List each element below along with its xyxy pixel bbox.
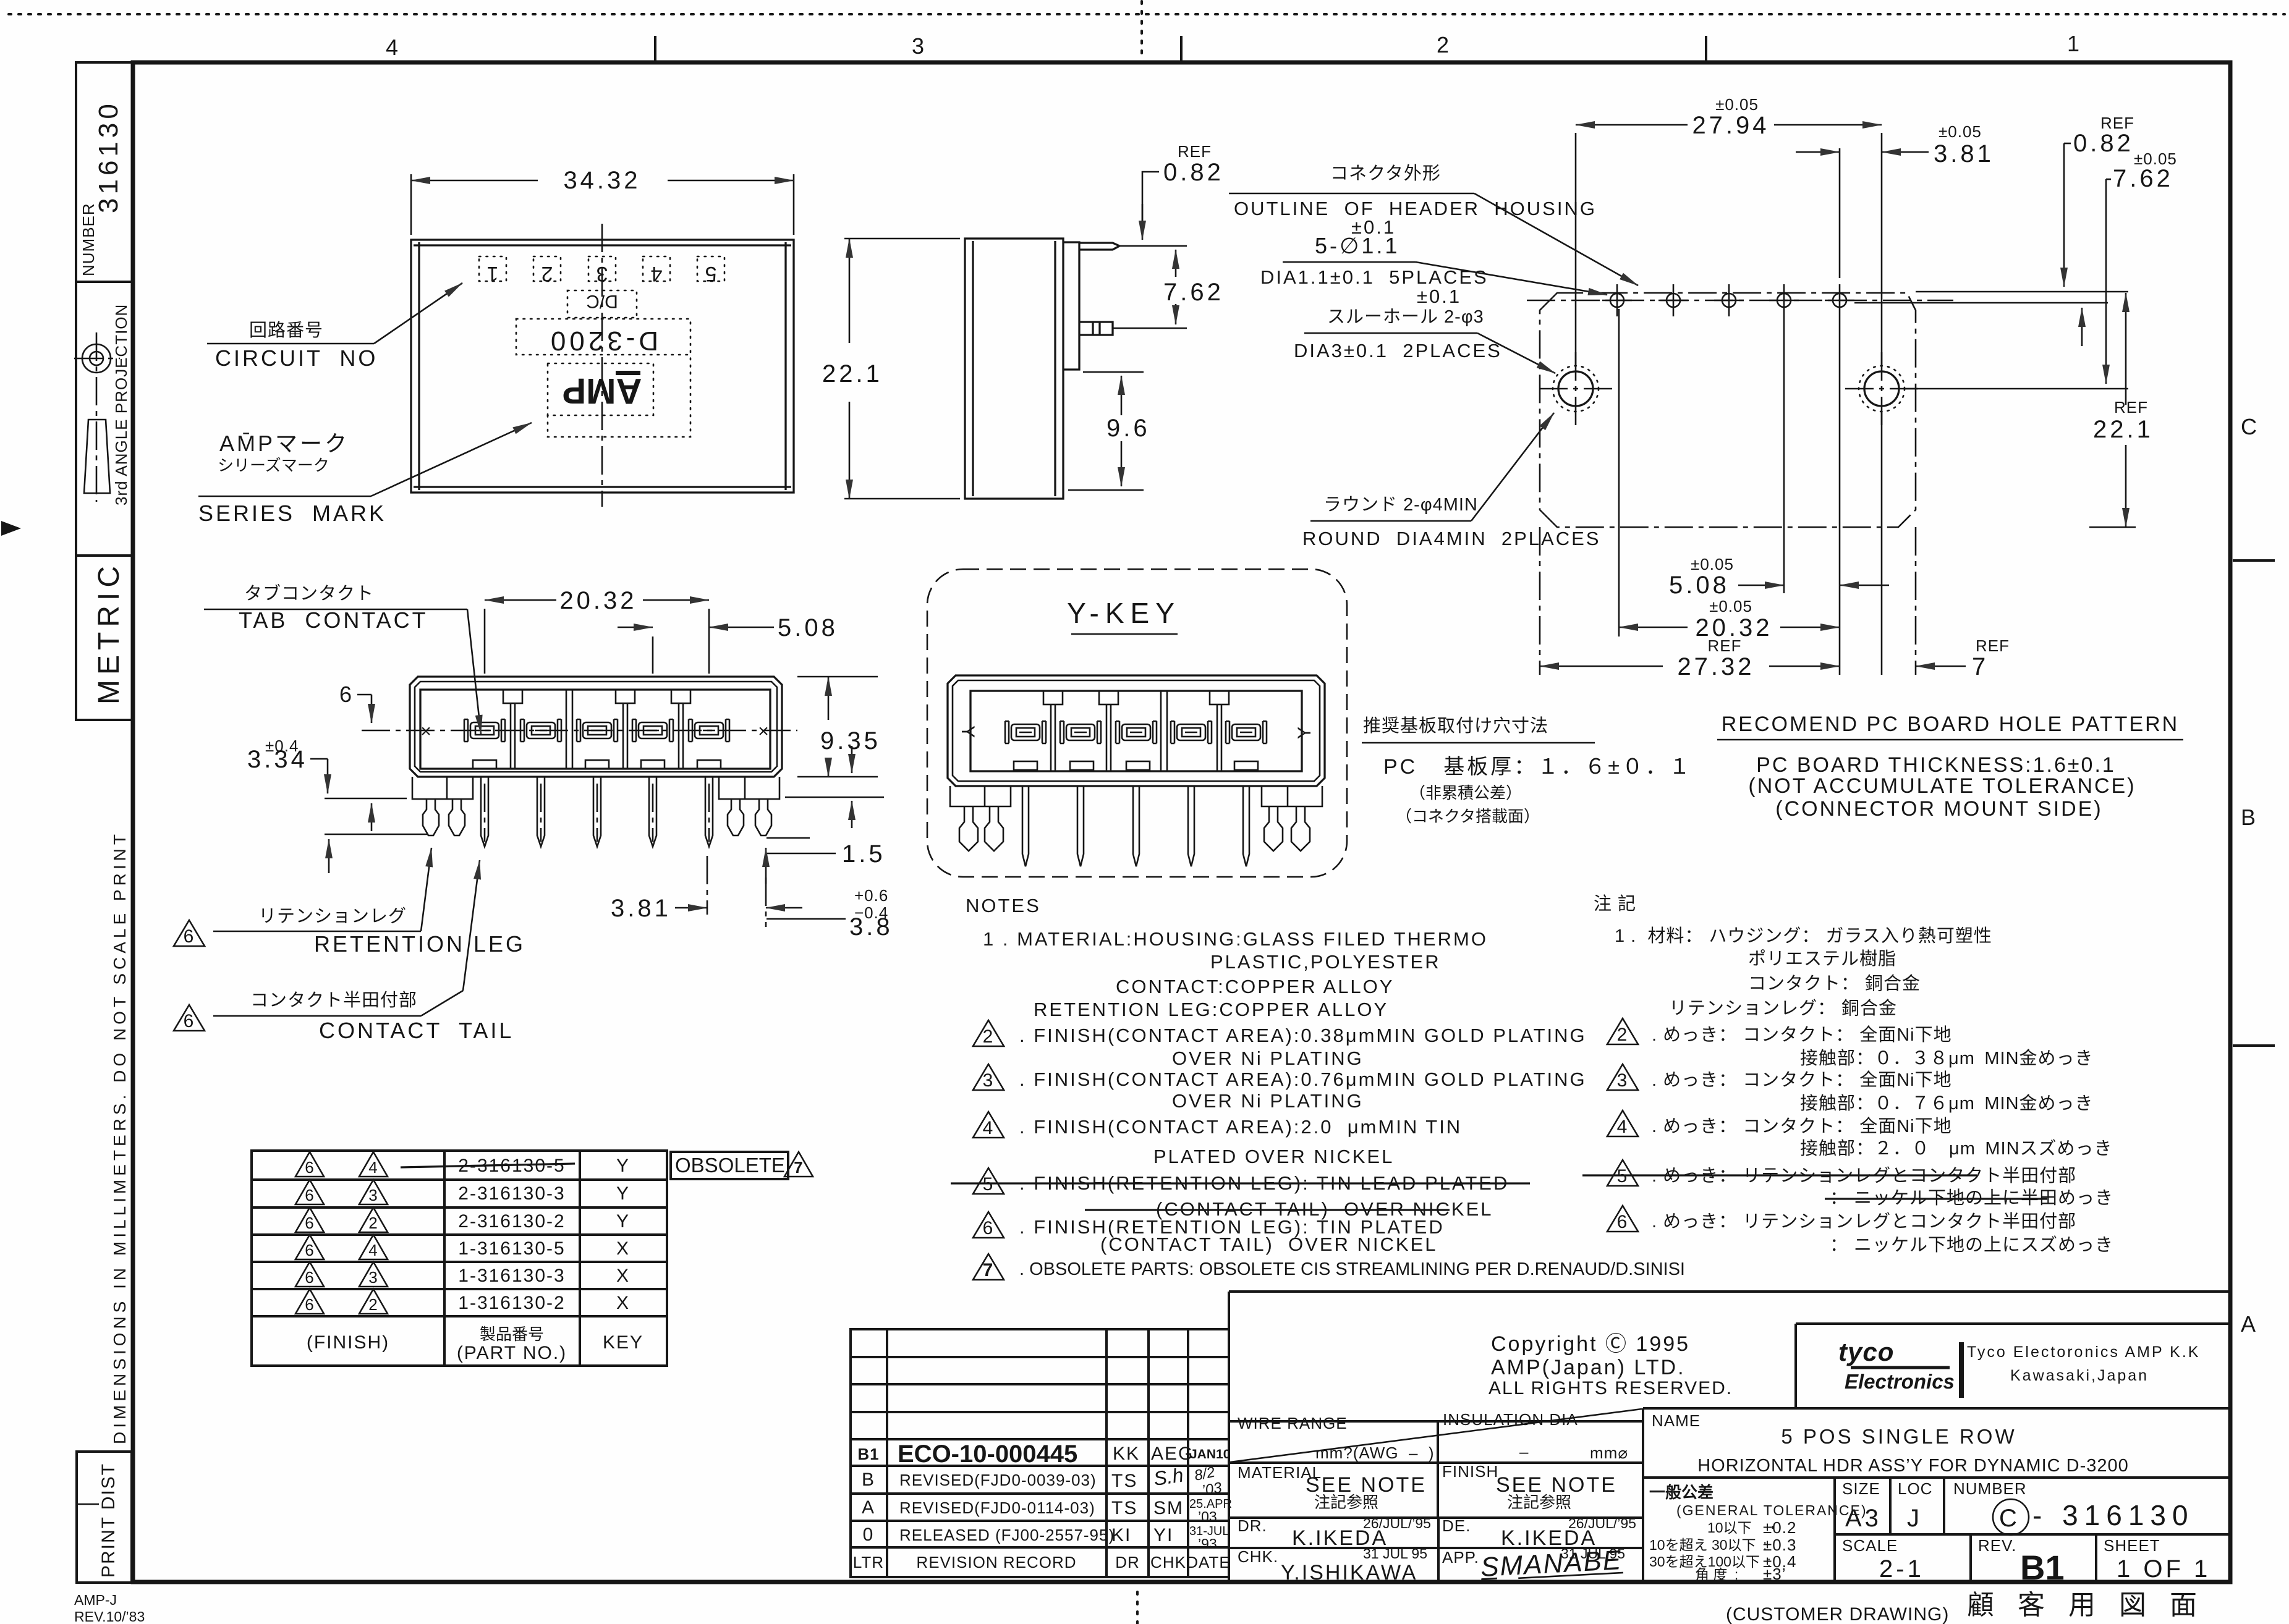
NOTES (japanese) [1582, 894, 2113, 1255]
dim 5.08 view4 [652, 636, 654, 674]
jnote 3 triangle [1607, 1064, 1638, 1091]
note 6 triangle [973, 1212, 1004, 1238]
svg-text:OUTLINE OF HEADER HOUSING: OUTLINE OF HEADER HOUSING [1234, 198, 1597, 219]
svg-text:5 POS SINGLE ROW: 5 POS SINGLE ROW [1781, 1425, 2016, 1448]
svg-text:Y: Y [616, 1183, 630, 1204]
svg-text:CHK.: CHK. [1238, 1547, 1278, 1566]
svg-text:3rd ANGLE PROJECTION: 3rd ANGLE PROJECTION [112, 304, 130, 505]
ykey pin 2 [1077, 787, 1084, 866]
svg-text:接触部：０．７６μm MIN金めっき: 接触部：０．７６μm MIN金めっき [1800, 1093, 2094, 1114]
svg-text:2: 2 [1437, 32, 1451, 57]
svg-text:J: J [1907, 1505, 1922, 1532]
svg-text:±0.05: ±0.05 [1939, 122, 1982, 141]
svg-text:AMP-J: AMP-J [74, 1592, 117, 1608]
svg-text:6: 6 [305, 1241, 314, 1259]
svg-text:LOC: LOC [1898, 1479, 1932, 1498]
right flange [719, 777, 779, 799]
small hole 2 [1658, 284, 1688, 316]
svg-text:. めっき： リテンションレグとコンタクト半田付部: . めっき： リテンションレグとコンタクト半田付部 [1652, 1211, 2076, 1232]
dim 9.6 side [1083, 371, 1144, 373]
svg-text:+0.6: +0.6 [854, 886, 888, 905]
lower tab pin [1079, 322, 1113, 335]
svg-text:RETENTION LEG:COPPER ALLOY: RETENTION LEG:COPPER ALLOY [1034, 999, 1388, 1020]
svg-text:Kawasaki,Japan: Kawasaki,Japan [2010, 1367, 2149, 1384]
svg-text:スルーホール 2-φ3: スルーホール 2-φ3 [1327, 307, 1484, 327]
VIEW3: PC board hole pattern [1229, 95, 2183, 821]
svg-text:リテンションレグ： 銅合金: リテンションレグ： 銅合金 [1669, 998, 1897, 1018]
retention leg L1 [423, 799, 439, 835]
svg-text:AMP: AMP [563, 371, 642, 411]
svg-text:KK: KK [1113, 1444, 1140, 1464]
svg-text:注記参照: 注記参照 [1507, 1493, 1571, 1512]
svg-text:CIRCUIT NO: CIRCUIT NO [215, 345, 378, 371]
bottom ext verticals [1618, 309, 1620, 636]
pin 1 [481, 777, 488, 847]
svg-text:27.32: 27.32 [1677, 653, 1754, 680]
3rd angle projection symbol circle [74, 332, 120, 502]
svg-text:0: 0 [863, 1525, 875, 1545]
svg-text:mm⌀: mm⌀ [1590, 1444, 1628, 1462]
pin 5 [705, 777, 713, 847]
dim 7.62 side [1119, 245, 1187, 247]
pin 3 [593, 777, 601, 847]
dim 9.35 [797, 676, 878, 678]
small hole 1 [1602, 284, 1632, 316]
svg-text:A: A [862, 1497, 875, 1518]
svg-text:’93: ’93 [1198, 1536, 1217, 1552]
center fold dotted marks bottom [1136, 1592, 1139, 1624]
bottom slot under c3 [585, 760, 609, 769]
revision table grid [851, 1329, 1229, 1577]
housing outline dashed [1540, 293, 1916, 527]
svg-text:顧客用図面: 顧客用図面 [1967, 1590, 2220, 1620]
svg-text:接触部：０．３８μm MIN金めっき: 接触部：０．３８μm MIN金めっき [1800, 1048, 2094, 1068]
ykey divider 3 wall [1161, 691, 1167, 771]
svg-text:注 記: 注 記 [1594, 894, 1636, 914]
svg-text:JAN10: JAN10 [1190, 1447, 1230, 1461]
svg-text:1-316130-5: 1-316130-5 [458, 1238, 565, 1259]
svg-text:APP.: APP. [1442, 1548, 1479, 1567]
svg-text:OVER Ni PLATING: OVER Ni PLATING [1172, 1047, 1364, 1069]
svg-text:1: 1 [2067, 31, 2082, 56]
svg-text:： ニッケル下地の上にスズめっき: ： ニッケル下地の上にスズめっき [1830, 1235, 2113, 1255]
svg-text:1 . 材料： ハウジング： ガラス入り熱可塑性: 1 . 材料： ハウジング： ガラス入り熱可塑性 [1615, 926, 1992, 946]
svg-text:NAME: NAME [1652, 1411, 1701, 1430]
contact 1 [464, 719, 505, 742]
svg-text:Y: Y [616, 1156, 630, 1176]
svg-text:2: 2 [1617, 1025, 1629, 1045]
svg-text:9.35: 9.35 [820, 727, 881, 755]
svg-text:REV.10/’83: REV.10/’83 [74, 1609, 145, 1624]
svg-text:RELEASED (FJ00-2557-95): RELEASED (FJ00-2557-95) [899, 1526, 1115, 1544]
big hole left [1539, 352, 1612, 425]
ykey contact 1 [1005, 721, 1046, 743]
svg-text:–: – [1519, 1442, 1529, 1461]
ykey contact 3 [1116, 721, 1157, 743]
svg-text:. めっき： コンタクト： 全面Ni下地: . めっき： コンタクト： 全面Ni下地 [1652, 1116, 1952, 1136]
svg-text:3.8: 3.8 [849, 913, 893, 941]
svg-text:コンタクト： 銅合金: コンタクト： 銅合金 [1748, 973, 1921, 994]
title block outline [1229, 1292, 2230, 1582]
VIEW2: side view [822, 142, 1224, 499]
side body [965, 239, 1119, 499]
ykey pin 1 [1022, 787, 1029, 866]
cavity [420, 690, 770, 769]
note 7 triangle [973, 1254, 1004, 1280]
svg-text:0.82: 0.82 [1163, 159, 1224, 186]
svg-text:X: X [616, 1293, 630, 1313]
svg-text:PLATED OVER NICKEL: PLATED OVER NICKEL [1153, 1146, 1394, 1167]
svg-text:DIMENSIONS IN MILLIMETERS. DO: DIMENSIONS IN MILLIMETERS. DO NOT SCALE … [110, 831, 129, 1444]
svg-text:D/C: D/C [586, 291, 618, 311]
svg-text:7: 7 [1972, 653, 1989, 680]
svg-text:5-∅1.1: 5-∅1.1 [1315, 233, 1399, 258]
finish triangles row1 6,4 [295, 1152, 324, 1177]
PARTS TABLE [252, 1151, 813, 1366]
svg-text:TAB CONTACT: TAB CONTACT [239, 607, 428, 633]
zone tick top 2|1 [1705, 36, 1707, 62]
svg-text:DIA3±0.1 2PLACES: DIA3±0.1 2PLACES [1294, 340, 1502, 362]
big hole right [1845, 352, 1918, 425]
dim 22.1 left [844, 238, 960, 240]
ykey bottom slot c3 [1126, 761, 1150, 770]
finish triangles row3 6,2 [295, 1207, 324, 1232]
svg-text:1 . MATERIAL:HOUSING:GLASS FIL: 1 . MATERIAL:HOUSING:GLASS FILED THERMO [983, 928, 1488, 950]
svg-text:10を超え 30以下 :: 10を超え 30以下 : [1649, 1537, 1767, 1553]
REVISION TABLE [851, 1329, 1232, 1577]
svg-text:3.34: 3.34 [247, 746, 308, 773]
ext lines right side [1916, 291, 2128, 293]
svg-text:3: 3 [983, 1070, 995, 1091]
contact 4 [632, 719, 673, 742]
svg-text:6: 6 [339, 682, 354, 707]
svg-text:TS: TS [1111, 1498, 1137, 1518]
dim 3.81 [675, 907, 707, 909]
svg-text:CHK: CHK [1150, 1553, 1186, 1571]
small hole 4 [1769, 284, 1799, 316]
svg-text:6: 6 [1617, 1212, 1629, 1232]
ykey bottom slot c1 [1014, 761, 1037, 770]
tyco divider bar [1959, 1342, 1964, 1398]
svg-text:(PART NO.): (PART NO.) [457, 1343, 567, 1363]
svg-text:OVER Ni PLATING: OVER Ni PLATING [1172, 1090, 1364, 1112]
svg-text:±3’: ±3’ [1763, 1565, 1786, 1583]
tyco logo [1838, 1337, 1955, 1393]
svg-text:DE.: DE. [1442, 1516, 1471, 1535]
svg-text:AMP(Japan) LTD.: AMP(Japan) LTD. [1491, 1356, 1686, 1379]
center dash line [601, 224, 603, 507]
note 3 triangle [973, 1064, 1004, 1091]
svg-text:2: 2 [368, 1295, 378, 1314]
svg-text:DR.: DR. [1238, 1516, 1267, 1535]
svg-text:tyco: tyco [1838, 1337, 1894, 1366]
note 4 triangle [973, 1112, 1004, 1138]
contact 2 [520, 719, 561, 742]
dim 34.32 [410, 174, 412, 235]
OBSOLETE flag [671, 1152, 788, 1179]
ykey divider 4 slot [1210, 691, 1229, 771]
svg-text:PLASTIC,POLYESTER: PLASTIC,POLYESTER [1210, 951, 1441, 973]
divider 2 wall [566, 690, 572, 769]
circuit no leader [374, 283, 462, 344]
ykey housing outline [948, 675, 1325, 786]
divider 1 with key slot [503, 690, 522, 769]
dim 1.5 [785, 797, 884, 798]
svg-text:DR: DR [1115, 1553, 1140, 1571]
svg-text:X: X [616, 1238, 630, 1259]
svg-text:4: 4 [983, 1118, 995, 1138]
svg-text:2-1: 2-1 [1879, 1555, 1924, 1583]
svg-text:SCALE: SCALE [1842, 1536, 1898, 1555]
svg-text:6: 6 [305, 1268, 314, 1287]
svg-text:×: × [758, 721, 770, 742]
zone tick top 4|3 [654, 36, 656, 62]
ykey divider 1 slot [1043, 691, 1063, 771]
finish triangles row5 6,3 [295, 1262, 324, 1287]
svg-text:7: 7 [794, 1158, 803, 1177]
svg-text:3: 3 [368, 1186, 378, 1204]
VIEW4: main front view with contacts [174, 583, 893, 1043]
top dotted trim line [9, 13, 2285, 15]
svg-text:リテンションレグ: リテンションレグ [258, 906, 407, 926]
finish triangles row6 6,2 [295, 1289, 324, 1314]
svg-text:B: B [2241, 805, 2258, 830]
svg-text:. FINISH(CONTACT AREA):0.38μmM: . FINISH(CONTACT AREA):0.38μmMIN GOLD PL… [1019, 1025, 1587, 1046]
housing body outline [410, 677, 782, 777]
svg-text:±0.05: ±0.05 [1715, 95, 1759, 114]
svg-text:5.08: 5.08 [778, 614, 838, 641]
svg-text:34.32: 34.32 [563, 167, 640, 194]
svg-text:REVISED(FJD0-0039-03): REVISED(FJD0-0039-03) [899, 1471, 1097, 1489]
sidebar divider projection [76, 554, 133, 557]
svg-text:KI: KI [1111, 1525, 1131, 1546]
signature S.MANABE [1479, 1545, 1623, 1583]
svg-text:2: 2 [368, 1214, 378, 1232]
svg-text:接触部：２．０ μm MINスズめっき: 接触部：２．０ μm MINスズめっき [1800, 1138, 2113, 1159]
svg-text:9.6: 9.6 [1106, 415, 1150, 442]
svg-text:1-316130-2: 1-316130-2 [458, 1293, 565, 1313]
note 5 triangle struck [973, 1168, 1004, 1195]
mating flange right [1063, 242, 1079, 370]
AMP logo rotated [563, 371, 642, 411]
svg-text:A: A [2241, 1311, 2258, 1337]
dotted box around AMP [548, 363, 653, 415]
svg-text:6: 6 [184, 926, 195, 947]
PRINT DIST box [77, 1452, 132, 1583]
svg-text:7.62: 7.62 [2113, 165, 2173, 192]
svg-text:±0.2: ±0.2 [1763, 1518, 1796, 1537]
svg-text:AM̄Pマーク: AM̄Pマーク [219, 431, 349, 456]
svg-text:B1: B1 [857, 1445, 879, 1463]
svg-text:REF: REF [2114, 398, 2148, 417]
svg-text:22.1: 22.1 [2093, 416, 2154, 443]
svg-text:DIA1.1±0.1 5PLACES: DIA1.1±0.1 5PLACES [1260, 266, 1488, 288]
svg-text:D-3200: D-3200 [547, 326, 658, 356]
ykey contact 5 [1226, 721, 1267, 743]
svg-text:角 度 :: 角 度 : [1695, 1567, 1738, 1583]
svg-text:SHEET: SHEET [2104, 1536, 2160, 1555]
svg-text:回路番号: 回路番号 [249, 320, 323, 340]
svg-text:’03: ’03 [1200, 1479, 1223, 1499]
svg-text:2-316130-2: 2-316130-2 [458, 1211, 565, 1232]
svg-text:C: C [2241, 414, 2259, 439]
svg-text:6: 6 [305, 1158, 314, 1177]
housing outline front [411, 240, 794, 493]
svg-text:NUMBER: NUMBER [79, 203, 98, 276]
retention leg R2 [755, 799, 771, 835]
bottom slot under c4 [641, 760, 665, 769]
contact 5 [689, 719, 729, 742]
ykey pin 4 [1188, 787, 1194, 866]
pin 2 [537, 777, 545, 847]
svg-text:3: 3 [912, 33, 927, 59]
svg-text:RECOMEND PC BOARD HOLE PATTERN: RECOMEND PC BOARD HOLE PATTERN [1722, 713, 2179, 736]
left edge registration arrow [1, 521, 21, 536]
svg-text:5.08: 5.08 [1669, 572, 1730, 599]
dim 27.94 [1575, 133, 1577, 366]
svg-text:S.h: S.h [1152, 1464, 1185, 1490]
svg-text:ROUND DIA4MIN 2PLACES: ROUND DIA4MIN 2PLACES [1302, 528, 1600, 549]
svg-text:3.81: 3.81 [1934, 140, 1994, 167]
svg-text:B: B [862, 1470, 875, 1490]
svg-text:3.81: 3.81 [611, 895, 671, 922]
svg-text:PC BOARD THICKNESS:1.6±0.1: PC BOARD THICKNESS:1.6±0.1 [1756, 753, 2116, 777]
diagonal slash wire range [1230, 1409, 1642, 1462]
svg-text:YI: YI [1153, 1525, 1173, 1546]
svg-text:LTR: LTR [853, 1553, 884, 1571]
svg-text:(GENERAL TOLERANCE): (GENERAL TOLERANCE) [1676, 1502, 1867, 1518]
svg-text:CONTACT:COPPER ALLOY: CONTACT:COPPER ALLOY [1116, 976, 1394, 997]
finish triangles row4 6,4 [295, 1235, 324, 1259]
svg-text:27.94: 27.94 [1692, 112, 1769, 139]
svg-text:7: 7 [983, 1260, 995, 1280]
svg-text:1.5: 1.5 [842, 840, 886, 868]
svg-text:Y-KEY: Y-KEY [1067, 597, 1181, 629]
housing body inner line [415, 682, 777, 772]
retention leg L2 [449, 799, 465, 835]
svg-text:Copyright Ⓒ 1995: Copyright Ⓒ 1995 [1491, 1332, 1690, 1356]
ykey bottom slot c5 [1234, 761, 1258, 770]
svg-text:Y.ISHIKAWA: Y.ISHIKAWA [1281, 1561, 1417, 1584]
svg-text:31 JUL 95: 31 JUL 95 [1363, 1546, 1427, 1562]
ykey right flange [1262, 786, 1322, 806]
zone tick top 3|2 [1180, 36, 1183, 62]
circuit numbers 5 4 3 2 1 (rotated) [487, 262, 717, 285]
YKEY view [927, 569, 1692, 877]
svg-text:REV.: REV. [1978, 1536, 2016, 1555]
pin 4 [649, 777, 656, 847]
svg-text:±0.3: ±0.3 [1763, 1536, 1796, 1554]
ykey divider 2 slot [1099, 691, 1118, 771]
svg-text:±0.05: ±0.05 [1709, 597, 1752, 615]
svg-text:AEG: AEG [1151, 1444, 1194, 1464]
svg-text:TS: TS [1111, 1471, 1137, 1491]
svg-text:製品番号: 製品番号 [480, 1325, 544, 1343]
svg-text:REF: REF [1976, 636, 2010, 655]
divider 3 with key slot [616, 690, 635, 769]
svg-text:4: 4 [1617, 1117, 1629, 1137]
svg-text:METRIC: METRIC [93, 561, 125, 704]
ykey leg R1 [1264, 806, 1283, 851]
svg-text:NUMBER: NUMBER [1953, 1479, 2027, 1498]
svg-text:SERIES MARK: SERIES MARK [198, 501, 386, 526]
center fold dotted marks top [1140, 1, 1143, 56]
svg-text:Y: Y [958, 725, 978, 739]
svg-text:3: 3 [1617, 1070, 1629, 1091]
NOTES (english) [951, 895, 1685, 1280]
dim 22.1 REF [2125, 293, 2127, 405]
svg-text:PRINT DIST: PRINT DIST [98, 1463, 119, 1578]
dim 20.32 view4 [484, 609, 486, 674]
hole row centerline [1527, 300, 1953, 302]
svg-text:ポリエステル樹脂: ポリエステル樹脂 [1748, 949, 1896, 969]
jnote 2 triangle [1607, 1018, 1638, 1045]
svg-text:7.62: 7.62 [1163, 279, 1224, 306]
svg-text:316130: 316130 [93, 100, 124, 213]
svg-text:Y: Y [616, 1211, 630, 1232]
svg-text:4: 4 [368, 1241, 378, 1259]
dashed boundary box [927, 569, 1347, 877]
svg-text:HORIZONTAL HDR ASS’Y FOR DYNAM: HORIZONTAL HDR ASS’Y FOR DYNAMIC D-3200 [1697, 1456, 2129, 1476]
svg-text:6: 6 [305, 1186, 314, 1204]
ykey bottom slot c2 [1070, 761, 1094, 770]
jnote 4 triangle [1607, 1110, 1638, 1137]
small hole 5 [1825, 284, 1854, 316]
contact 3 [577, 719, 618, 742]
svg-text:mm?(AWG – ): mm?(AWG – ) [1315, 1444, 1435, 1462]
center line through contacts [362, 730, 797, 732]
svg-text:REF: REF [1708, 636, 1742, 655]
svg-text:(CONTACT TAIL) OVER NICKEL: (CONTACT TAIL) OVER NICKEL [1100, 1233, 1438, 1255]
svg-text:×: × [420, 721, 433, 742]
dotted boxes around numbers [479, 256, 724, 281]
ykey pin 5 [1243, 787, 1249, 866]
ykey leg L2 [985, 806, 1003, 851]
svg-text:. めっき： コンタクト： 全面Ni下地: . めっき： コンタクト： 全面Ni下地 [1652, 1025, 1952, 1045]
svg-text:6: 6 [305, 1214, 314, 1232]
svg-text:SM: SM [1153, 1498, 1184, 1518]
VIEW1: top front view with markings [198, 167, 794, 526]
svg-text:DATE: DATE [1186, 1553, 1230, 1571]
zone tick right B|A [2233, 1044, 2275, 1047]
note 2 triangle [973, 1020, 1004, 1047]
svg-text:- 316130: - 316130 [2032, 1499, 2194, 1531]
divider 4 with key slot [671, 690, 690, 769]
left flange [412, 777, 473, 799]
svg-text:（コネクタ搭載面）: （コネクタ搭載面） [1396, 807, 1540, 826]
svg-text:4: 4 [386, 35, 401, 60]
svg-text:6: 6 [305, 1295, 314, 1314]
svg-text:FINISH: FINISH [1442, 1462, 1498, 1481]
dim 3.81 [1839, 148, 1841, 278]
svg-text:NOTES: NOTES [966, 895, 1041, 916]
svg-text:’03: ’03 [1198, 1508, 1217, 1525]
svg-text:KEY: KEY [603, 1332, 643, 1353]
sidebar divider number [76, 281, 133, 283]
finish triangles row2 6,3 [295, 1180, 324, 1204]
svg-text:タブコンタクト: タブコンタクト [244, 583, 374, 604]
svg-text:. FINISH(CONTACT AREA):2.0 μm: . FINISH(CONTACT AREA):2.0 μmMIN TIN [1019, 1116, 1462, 1138]
svg-text:0.82: 0.82 [2073, 130, 2134, 157]
svg-text:. OBSOLETE PARTS: OBSOLETE CIS: . OBSOLETE PARTS: OBSOLETE CIS STREAMLIN… [1019, 1259, 1685, 1279]
svg-text:REF: REF [1178, 142, 1212, 161]
svg-text:INSULATION DIA: INSULATION DIA [1443, 1410, 1578, 1429]
svg-text:. めっき： コンタクト： 全面Ni下地: . めっき： コンタクト： 全面Ni下地 [1652, 1070, 1952, 1090]
svg-text:(FINISH): (FINISH) [307, 1332, 389, 1353]
svg-text:C: C [1999, 1505, 2020, 1532]
ykey contact 4 [1171, 721, 1212, 743]
svg-text:ラウンド 2-φ4MIN: ラウンド 2-φ4MIN [1323, 495, 1478, 515]
